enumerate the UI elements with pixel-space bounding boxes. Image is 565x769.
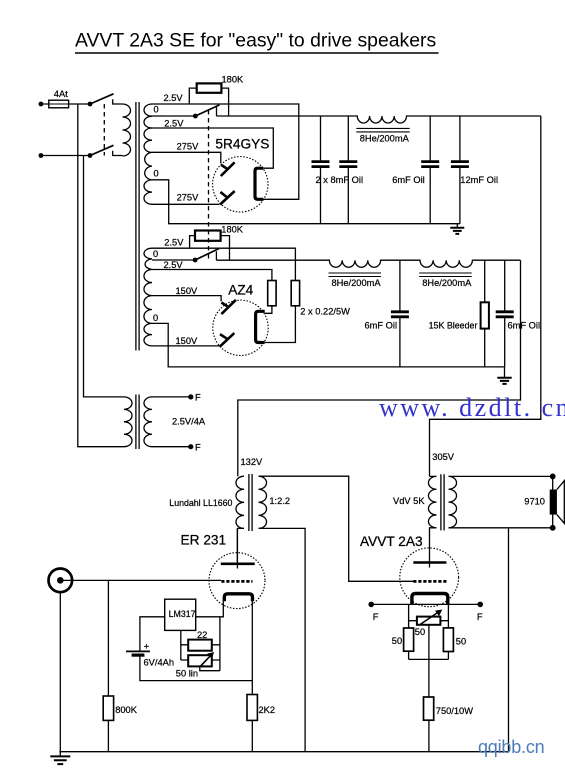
svg-text:0: 0	[153, 249, 158, 259]
svg-text:275V: 275V	[177, 141, 200, 151]
svg-text:800K: 800K	[115, 705, 138, 715]
svg-text:6mF Oil: 6mF Oil	[508, 320, 541, 330]
svg-text:0: 0	[153, 313, 158, 323]
svg-text:6V/4Ah: 6V/4Ah	[144, 658, 175, 668]
svg-text:9710: 9710	[524, 496, 545, 506]
svg-text:50 lin: 50 lin	[176, 669, 198, 679]
svg-text:6mF Oil: 6mF Oil	[392, 175, 425, 185]
svg-text:AVVT 2A3 SE for "easy" to driv: AVVT 2A3 SE for "easy" to drive speakers	[75, 30, 436, 52]
svg-text:2.5V/4A: 2.5V/4A	[172, 417, 206, 427]
svg-text:50: 50	[392, 636, 402, 646]
svg-text:8He/200mA: 8He/200mA	[360, 134, 410, 144]
svg-text:5R4GYS: 5R4GYS	[215, 136, 269, 151]
svg-text:22: 22	[197, 630, 207, 640]
svg-text:305V: 305V	[432, 452, 455, 462]
svg-text:180K: 180K	[222, 75, 245, 85]
svg-text:2.5V: 2.5V	[164, 260, 184, 270]
svg-text:8He/200mA: 8He/200mA	[332, 278, 382, 288]
svg-text:VdV 5K: VdV 5K	[393, 496, 425, 506]
svg-text:132V: 132V	[241, 457, 264, 467]
svg-text:www. dzdlt. cn: www. dzdlt. cn	[379, 393, 565, 422]
svg-text:0: 0	[154, 104, 159, 114]
svg-text:AZ4: AZ4	[228, 283, 253, 298]
svg-text:12mF Oil: 12mF Oil	[460, 175, 498, 185]
svg-text:50: 50	[456, 637, 466, 647]
svg-text:LM317: LM317	[169, 609, 196, 619]
svg-text:750/10W: 750/10W	[436, 706, 473, 716]
svg-text:8He/200mA: 8He/200mA	[422, 278, 472, 288]
svg-text:1:2.2: 1:2.2	[269, 496, 290, 506]
svg-text:2 x 8mF Oil: 2 x 8mF Oil	[316, 175, 364, 185]
svg-text:2 x 0.22/5W: 2 x 0.22/5W	[300, 307, 350, 317]
svg-text:F: F	[195, 443, 201, 453]
svg-text:180K: 180K	[221, 224, 244, 234]
svg-text:AVVT 2A3: AVVT 2A3	[360, 534, 423, 549]
svg-text:+: +	[144, 642, 150, 653]
svg-text:150V: 150V	[176, 336, 199, 346]
svg-text:F: F	[477, 612, 483, 622]
svg-text:ER 231: ER 231	[181, 532, 227, 547]
svg-text:50: 50	[415, 627, 425, 637]
svg-text:6mF Oil: 6mF Oil	[365, 320, 398, 330]
svg-text:2.5V: 2.5V	[164, 119, 184, 129]
svg-text:qqibb.cn: qqibb.cn	[478, 737, 544, 757]
svg-text:4At: 4At	[54, 89, 68, 99]
svg-text:275V: 275V	[177, 192, 200, 202]
svg-text:150V: 150V	[176, 286, 199, 296]
svg-text:0: 0	[154, 169, 159, 179]
svg-text:2.5V: 2.5V	[164, 238, 184, 248]
svg-text:F: F	[373, 612, 379, 622]
svg-text:2.5V: 2.5V	[164, 93, 184, 103]
svg-text:F: F	[195, 393, 201, 403]
svg-text:Lundahl LL1660: Lundahl LL1660	[169, 498, 232, 508]
svg-text:2K2: 2K2	[259, 705, 276, 715]
svg-text:15K Bleeder: 15K Bleeder	[429, 320, 478, 330]
